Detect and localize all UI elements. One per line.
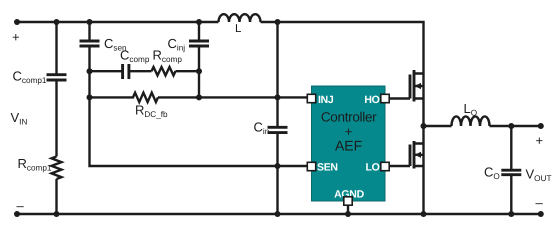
junction SW row / CO xyxy=(508,123,514,129)
junction bottom rail / Rcomp1 xyxy=(54,211,60,217)
junction comp row right xyxy=(196,68,202,74)
junction sen row / Cin xyxy=(275,163,281,169)
pin INJ xyxy=(307,94,315,102)
svg-text:Ccomp1: Ccomp1 xyxy=(13,69,47,86)
wire top rail xyxy=(17,22,424,74)
resistor Rcomp xyxy=(152,67,200,75)
svg-text:VIN: VIN xyxy=(11,110,28,127)
svg-text:AEF: AEF xyxy=(335,138,362,154)
resistor Rcomp1 xyxy=(52,157,62,215)
junction fb row left xyxy=(87,94,93,100)
transistor Q2 body arrow xyxy=(415,152,421,158)
wire AGND xyxy=(347,205,349,214)
junction bottom rail / AGND xyxy=(345,211,351,217)
capacitor CO xyxy=(510,126,512,214)
transistor Q1 body arrow xyxy=(415,83,421,89)
svg-text:Cin: Cin xyxy=(254,120,270,137)
wire sen branch xyxy=(90,71,308,166)
capacitor Ccomp xyxy=(90,70,152,72)
svg-text:+: + xyxy=(12,30,20,45)
svg-text:LO: LO xyxy=(366,162,380,174)
svg-text:–: – xyxy=(536,195,544,210)
resistor RDC_fb xyxy=(90,93,308,102)
transistor Q1 high-side nmos xyxy=(409,75,412,99)
svg-text:SEN: SEN xyxy=(317,162,338,174)
op-amp U1 controller block xyxy=(312,86,386,201)
junction bottom rail / CO xyxy=(508,211,514,217)
transistor Q2 low-side nmos xyxy=(409,145,412,167)
wire HO gate xyxy=(389,97,410,99)
inductor L xyxy=(219,14,261,22)
svg-text:Ccomp: Ccomp xyxy=(120,48,150,65)
junction top rail / Csen xyxy=(87,19,93,25)
wire LO gate xyxy=(389,165,410,167)
junction SW node xyxy=(421,123,427,129)
svg-text:VOUT: VOUT xyxy=(526,167,552,184)
capacitor Csen xyxy=(88,22,90,71)
svg-text:+: + xyxy=(536,133,544,148)
node Vout+ terminal xyxy=(538,123,544,129)
svg-text:LO: LO xyxy=(464,101,478,118)
junction bottom rail / Cin xyxy=(275,211,281,217)
junction top rail / Cin xyxy=(275,19,281,25)
junction top rail / Ccomp1 xyxy=(54,19,60,25)
node Vout- terminal xyxy=(538,211,544,217)
wire Cinj branch to fb row xyxy=(198,71,200,97)
junction top rail / Cinj xyxy=(196,19,202,25)
svg-text:L: L xyxy=(235,23,242,35)
node Vin- terminal xyxy=(14,211,20,217)
svg-text:Cinj: Cinj xyxy=(168,36,186,53)
svg-text:CO: CO xyxy=(484,165,500,182)
svg-text:Controller: Controller xyxy=(321,110,377,125)
svg-text:Rcomp1: Rcomp1 xyxy=(18,156,52,173)
svg-text:HO: HO xyxy=(364,94,379,106)
junction fb row / Cinj xyxy=(196,94,202,100)
junction fb row / Cin xyxy=(275,94,281,100)
pin SEN xyxy=(307,162,315,170)
svg-text:INJ: INJ xyxy=(318,94,334,106)
capacitor Cinj xyxy=(198,22,200,71)
svg-text:RDC_fb: RDC_fb xyxy=(135,103,168,120)
junction bottom rail / Q2 source xyxy=(421,211,427,217)
wire SW node to LO inductor xyxy=(424,125,541,127)
inductor LO xyxy=(452,116,490,126)
capacitor Cin xyxy=(276,22,278,214)
capacitor Ccomp1 xyxy=(55,22,57,157)
pin LO xyxy=(381,162,389,170)
junction comp row left xyxy=(87,68,93,74)
pin HO xyxy=(381,94,389,102)
node Vin+ terminal xyxy=(14,19,20,25)
wire bottom rail xyxy=(17,213,541,215)
svg-text:–: – xyxy=(17,198,25,213)
